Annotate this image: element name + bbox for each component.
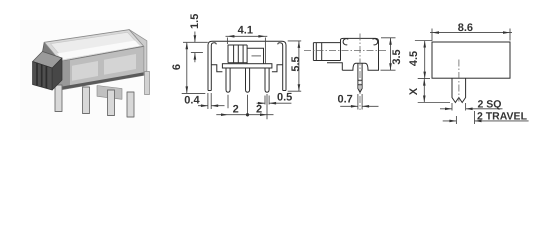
svg-text:2: 2 <box>256 104 262 116</box>
left leg inner line with corner hook <box>208 43 216 91</box>
front face shadow next to knob <box>58 60 70 91</box>
dim 2-2 chain lines <box>216 94 273 119</box>
left bracket leg <box>55 85 62 112</box>
side lever band <box>313 43 340 61</box>
dim 0.5 lines <box>257 96 292 105</box>
svg-text:5.5: 5.5 <box>290 56 302 71</box>
svg-text:X: X <box>408 87 420 95</box>
pin 3 (front view) <box>265 68 269 92</box>
dim 2 TRAVEL lines <box>443 111 529 124</box>
arrowheads 0.7 <box>351 105 358 108</box>
side pin <box>358 63 362 92</box>
dim 3.5 lines <box>381 38 396 70</box>
end view body <box>432 42 510 78</box>
arrowheads 2 TRAVEL <box>449 120 456 123</box>
front view dimensions <box>182 32 302 120</box>
knob serration grooves <box>37 63 46 88</box>
photo background tint <box>20 20 150 140</box>
switch body left end face <box>40 42 61 90</box>
top face inner frame <box>51 32 140 59</box>
arrowheads 4.5 <box>423 41 426 48</box>
right mounting bracket plate <box>97 86 122 100</box>
right leg inner line with corner hook <box>278 43 286 91</box>
arrowheads 4.1 <box>227 35 234 38</box>
svg-text:0.4: 0.4 <box>184 95 200 107</box>
knob serrated section <box>228 45 247 64</box>
dim 8.6 lines <box>430 29 512 41</box>
slider knob front serrated face <box>33 62 53 91</box>
arrowheads 0.5 <box>258 102 265 105</box>
svg-text:0.7: 0.7 <box>338 94 353 106</box>
right bracket leg <box>145 72 150 95</box>
side body ear right <box>373 39 378 45</box>
dim 0.7 lines <box>340 94 378 110</box>
dim 6 line <box>182 43 206 94</box>
arrowheads 1.5 <box>194 35 197 42</box>
knob body section <box>247 48 263 64</box>
switch body front face <box>58 46 144 90</box>
front face window panel 1 <box>72 61 98 81</box>
arrowheads X <box>423 79 426 86</box>
arrowheads 3.5 <box>389 38 392 45</box>
svg-text:2 SQ: 2 SQ <box>478 99 502 111</box>
switch body top face <box>44 30 144 62</box>
side knob cap <box>313 43 321 61</box>
dim 4.1 lines <box>226 36 268 63</box>
svg-text:3.5: 3.5 <box>391 49 403 64</box>
end view pin centreline <box>458 60 460 102</box>
svg-text:8.6: 8.6 <box>458 22 473 34</box>
arrowheads 5.5 <box>298 41 301 48</box>
pin 3 (3D) <box>127 92 134 117</box>
pin 2 (3D) <box>108 90 115 116</box>
svg-text:4.1: 4.1 <box>238 25 253 37</box>
front face window panel 2 <box>104 54 136 75</box>
dim 1.5 lines <box>183 32 208 63</box>
slider knob top face <box>33 52 62 69</box>
pin 1 (3D) <box>83 87 90 114</box>
dim X lines <box>418 79 450 103</box>
side body ear left <box>343 39 348 45</box>
side lever skirt <box>327 63 342 70</box>
front face lower shadow strip <box>58 72 144 90</box>
knob centre dash <box>252 55 262 57</box>
front body outer outline with side legs <box>208 41 286 90</box>
switch body right end cap <box>129 30 147 76</box>
svg-text:0.5: 0.5 <box>277 92 292 104</box>
arrowheads 8.6 <box>432 31 439 34</box>
side body outline <box>341 38 379 70</box>
arrowheads 6 <box>186 42 189 49</box>
slider knob right face <box>52 58 62 90</box>
svg-text:6: 6 <box>171 64 183 70</box>
arrowheads 0.4 <box>201 104 208 107</box>
arrowheads and dot 2-2 <box>221 113 228 116</box>
dim 4.5 lines <box>415 41 433 79</box>
top face front highlight band <box>57 41 140 60</box>
pin 1 (front view) <box>226 68 230 92</box>
svg-text:2 TRAVEL: 2 TRAVEL <box>477 111 528 123</box>
side horizontal centreline <box>304 49 386 51</box>
dim 0.4 lines <box>198 93 225 109</box>
dim 5.5 lines <box>288 41 302 91</box>
bottom step notch line <box>211 65 282 72</box>
side vertical centreline <box>359 34 361 111</box>
svg-text:1.5: 1.5 <box>189 14 201 29</box>
svg-text:4.5: 4.5 <box>408 51 420 66</box>
pin 2 (front view) <box>246 68 250 92</box>
arrowheads 2 SQ <box>445 108 452 111</box>
base plate band <box>222 64 272 68</box>
end view pin with break <box>452 78 466 102</box>
svg-text:2: 2 <box>233 104 239 116</box>
dim 2 SQ lines <box>440 103 503 111</box>
